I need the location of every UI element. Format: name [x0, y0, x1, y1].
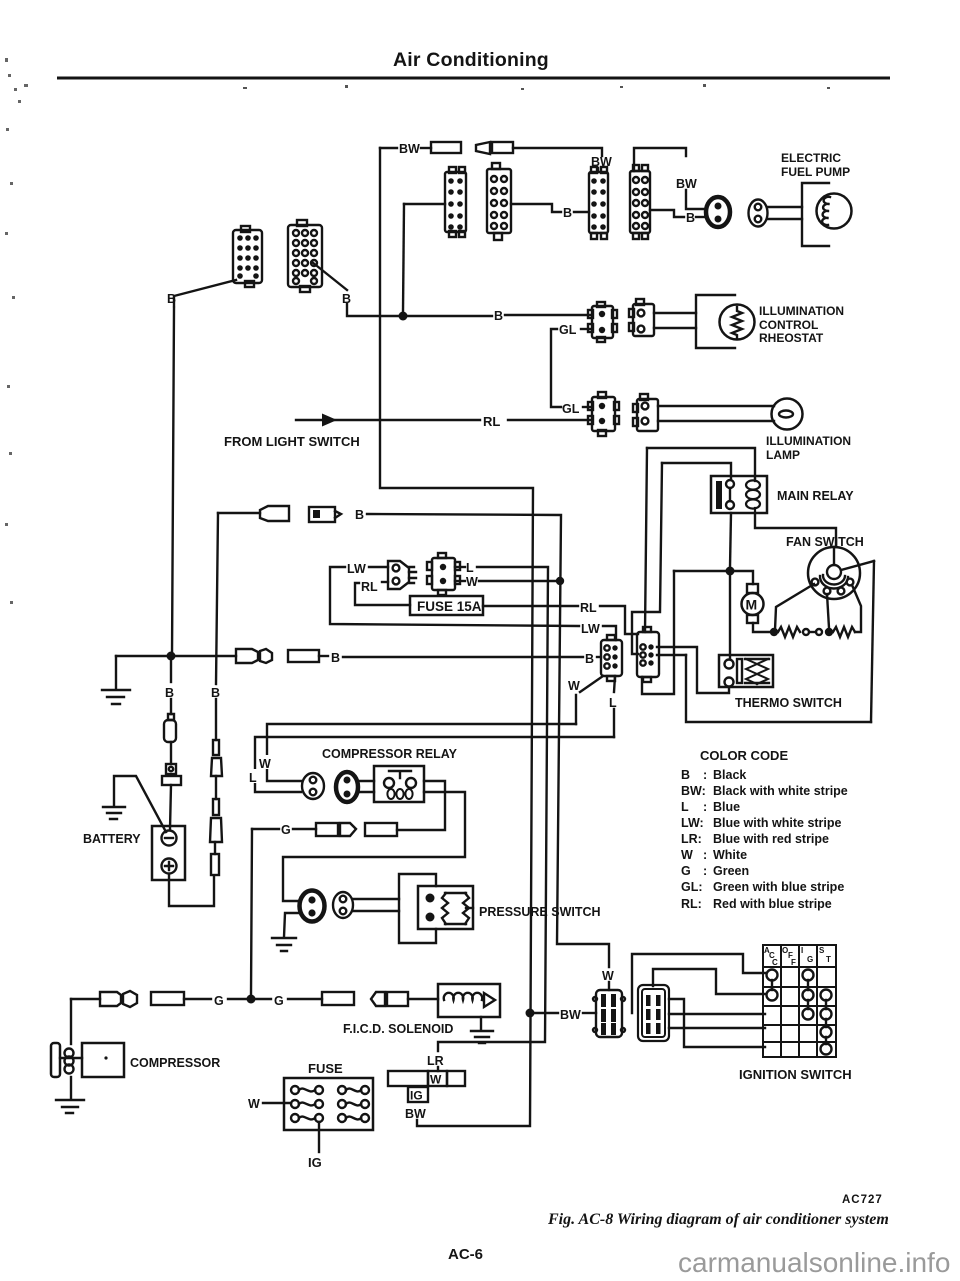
svg-text:FAN SWITCH: FAN SWITCH: [786, 535, 864, 549]
wire ground drop: [115, 656, 117, 689]
wire main BW vertical: top-left down, across, long drop to bottom loop: [380, 148, 533, 1126]
svg-text:LR: LR: [427, 1054, 444, 1068]
node left ground junction: [167, 652, 176, 661]
wire BW label into connector C: [597, 168, 599, 172]
svg-text:Black with white stripe: Black with white stripe: [713, 784, 848, 798]
wire connector I mid pin to loop: [657, 654, 686, 656]
wires dark oval to relay box: [358, 781, 374, 792]
oval connector (dark) fuel pump side: [706, 197, 730, 227]
wire relay upper right to inline connector: [397, 781, 445, 830]
wire RL label to connector J: [382, 581, 388, 583]
node W tap on rail: [556, 577, 564, 585]
wire B bullet row (y=514): [218, 512, 260, 514]
wire fan pin 1 diagonal to chain: [775, 584, 814, 630]
fan switch body: [808, 547, 860, 599]
resistor (fan speed) 2: [833, 627, 855, 637]
svg-text:W: W: [259, 757, 271, 771]
pressure switch bracket: [399, 874, 436, 943]
wire into connector A: [404, 203, 445, 205]
wire W feed: long run from under connector H west then down: [267, 724, 576, 781]
thermo switch bellows: [745, 659, 769, 684]
F.I.C.D. solenoid box: [438, 984, 500, 1017]
svg-text:IGNITION SWITCH: IGNITION SWITCH: [739, 1067, 852, 1082]
bullet plug (G row): [100, 992, 121, 1006]
blower motor M: [742, 584, 764, 623]
node G junction: [247, 995, 256, 1004]
svg-text::: :: [703, 800, 707, 814]
battery box: [152, 826, 185, 880]
node motor junction: [726, 567, 735, 576]
wire bridge 2 left drop with jog to connector I: [632, 463, 662, 654]
color code entry G: [681, 864, 749, 878]
wire connector I top pin to thermo bottom pin: [657, 647, 729, 693]
wire plug to corner above connector C: [513, 148, 602, 156]
svg-text::: :: [703, 864, 707, 878]
wire CN1 to B drop: [174, 280, 236, 306]
horizontal rule under title: [57, 77, 890, 80]
wire B run east to connector H: [343, 656, 583, 658]
wire compressor to ground: [70, 1077, 72, 1099]
wire BW tap to label: [534, 1012, 558, 1014]
wire G west corner: [252, 828, 279, 830]
svg-text:I: I: [801, 946, 803, 955]
arrow plug (G row): [123, 991, 137, 1007]
ground symbol (FICD): [471, 1031, 493, 1043]
wire RL label corner down to connector I: [600, 606, 638, 634]
svg-text:ILLUMINATION: ILLUMINATION: [766, 434, 851, 448]
wire L label east then down to LR cells: [438, 567, 548, 1051]
svg-text:B: B: [165, 686, 174, 700]
wire connector B to label B: [511, 204, 561, 212]
F.I.C.D. solenoid plunger: [484, 993, 495, 1007]
main relay box: [711, 476, 767, 513]
wire bullet to ring terminal: [170, 742, 172, 764]
wire ignition D (row 3): [669, 1013, 765, 1015]
wire fan switch wiper diagonal to right rail: [841, 561, 874, 570]
wire LR label to cells: [437, 1067, 439, 1071]
svg-text:B: B: [355, 508, 364, 522]
illumination lamp tube: [658, 406, 774, 421]
svg-text::: :: [703, 848, 707, 862]
wire L label drop from connector H: [614, 676, 615, 737]
color code entry GL: [681, 880, 844, 894]
oval connector (open) compressor relay: [302, 773, 324, 799]
svg-text:LW: LW: [581, 622, 600, 636]
main relay contact points: [726, 480, 734, 509]
illumination control rheostat (circle with resistor): [720, 305, 755, 340]
wire B bus label to connector E: [505, 314, 592, 316]
svg-text:T: T: [826, 955, 831, 964]
svg-text:FUSE: FUSE: [308, 1061, 343, 1076]
connector G (2-pin filled with tabs): [588, 392, 619, 436]
wire connector D up and over to BW label: [634, 148, 686, 171]
compressor box: [82, 1043, 124, 1077]
wire loop bottom (thermo circuit return): [686, 655, 871, 722]
fuse element r1c1: [291, 1086, 323, 1094]
svg-text:Fig. AC-8 Wiring diagram of a: Fig. AC-8 Wiring diagram of air conditio…: [547, 1211, 889, 1228]
connector D (10-pin open): [630, 165, 650, 239]
ignition header ACC: [764, 946, 778, 967]
svg-text:COLOR CODE: COLOR CODE: [700, 748, 788, 763]
bullet plug pair on BW wire: [476, 142, 490, 154]
node resistor chain left junction: [770, 628, 778, 636]
wire W label to fuse box: [263, 1102, 291, 1104]
wire junction left branch: [674, 570, 726, 572]
fuse element r3c2: [338, 1114, 369, 1122]
svg-text:PRESSURE SWITCH: PRESSURE SWITCH: [479, 905, 601, 919]
wire GL bracket vertical: [551, 329, 561, 407]
wire motor to resistor chain: [753, 623, 770, 632]
wire G label to plug: [293, 828, 316, 830]
svg-text:LAMP: LAMP: [766, 448, 800, 462]
node BW tap on main rail: [526, 1009, 535, 1018]
wire relay coil to fan switch: [755, 513, 836, 547]
wire left B vertical below junction: [170, 660, 172, 682]
svg-text:CONTROL: CONTROL: [759, 318, 818, 332]
svg-text:GL: GL: [559, 323, 577, 337]
wire B row east then down the W-rail: [367, 514, 609, 967]
wire junction to G label 2: [256, 998, 271, 1000]
oval connector (open) fuel pump side: [749, 200, 768, 227]
svg-text:carmanualsonline.info: carmanualsonline.info: [678, 1247, 950, 1278]
svg-text:L: L: [466, 561, 474, 575]
svg-text:AC-6: AC-6: [448, 1246, 483, 1263]
wire bridge 2 (to relay contact): [662, 463, 731, 478]
ignition switch grid: [763, 945, 836, 1057]
ignition contacts ACC column: [767, 970, 778, 1001]
svg-text:White: White: [713, 848, 747, 862]
wire GL label to connector E: [581, 328, 592, 330]
wire L feed: long run from under connector H west then down: [255, 737, 614, 792]
connector I (6-pin): [637, 627, 659, 682]
wire bridge 1 left drop to connector I: [645, 448, 647, 632]
svg-text:FUEL PUMP: FUEL PUMP: [781, 165, 850, 179]
wire ignition B (row 2): [653, 969, 765, 994]
wire BW stub at top left: [380, 147, 397, 149]
ground symbol (compressor): [56, 1100, 84, 1113]
wires oval to fuel pump: [768, 207, 802, 219]
svg-text:G: G: [281, 823, 291, 837]
svg-text:W: W: [681, 848, 693, 862]
svg-text:M: M: [746, 597, 758, 613]
blade connector pair 1 (x=218 column): [211, 740, 222, 776]
wire compressor feed corner: [71, 998, 100, 1000]
fuse element r2c1: [291, 1100, 323, 1108]
connector CN1 (12-pin, filled) top left: [233, 226, 262, 287]
svg-text:GL: GL: [562, 402, 580, 416]
wire resistor 2 up to fan pin 4: [852, 585, 861, 632]
wire under B label to blade connectors: [215, 699, 217, 740]
thermo switch bar: [737, 659, 742, 683]
fuse box: [284, 1078, 373, 1130]
main relay armature bar: [716, 481, 722, 509]
svg-text:Red with blue stripe: Red with blue stripe: [713, 897, 832, 911]
ignition header ST: [819, 946, 831, 964]
connector C (10-pin filled): [589, 167, 608, 239]
wire junction east to bullet row (y=656): [176, 655, 236, 657]
pressure switch bellows: [442, 893, 473, 924]
wire W label into BW connector: [608, 982, 610, 990]
svg-text:ILLUMINATION: ILLUMINATION: [759, 304, 844, 318]
svg-text:F: F: [791, 958, 796, 967]
svg-text:L: L: [681, 800, 689, 814]
wire ignition E (row 4): [669, 1027, 765, 1029]
bullet terminal (x=171 column): [164, 714, 176, 742]
wire to blade 3: [214, 842, 216, 854]
ignition contacts ST column: [821, 990, 832, 1055]
connector M (slotted 6-pin): [638, 985, 669, 1041]
blade connector pair 2 (x=218 column): [210, 799, 222, 842]
connector B (10-pin open): [487, 163, 511, 240]
svg-text:G: G: [214, 994, 224, 1008]
svg-text:B: B: [167, 292, 176, 306]
svg-text:B: B: [686, 211, 695, 225]
svg-text:S: S: [819, 946, 825, 955]
wire W label east to W-rail: [479, 580, 556, 582]
compressor relay box: [374, 766, 424, 802]
svg-text:G: G: [274, 994, 284, 1008]
inline connector rect (B row lower): [288, 650, 319, 662]
F.I.C.D. solenoid coil: [444, 993, 482, 1000]
svg-text:BW: BW: [399, 142, 420, 156]
wire relay contact down to motor junction: [730, 513, 731, 567]
svg-text:B: B: [563, 206, 572, 220]
wires connector F to rheostat bracket: [654, 313, 696, 328]
svg-text:BW:: BW:: [681, 784, 706, 798]
oval connector (dark) pressure switch: [300, 891, 325, 922]
wire FICD ground stub: [480, 1017, 482, 1030]
label L (compressor relay feed): [247, 769, 259, 785]
svg-text:Blue with red stripe: Blue with red stripe: [713, 832, 829, 846]
svg-text:BW: BW: [560, 1008, 581, 1022]
rheostat bracket: [696, 295, 735, 348]
color code entry LW: [681, 816, 842, 830]
wire junction to motor: [730, 571, 753, 584]
arrowhead on light switch feed: [322, 414, 337, 427]
svg-text:Black: Black: [713, 768, 746, 782]
connector J (2-pin wedge): [388, 561, 416, 589]
wire BW label to connector: [421, 147, 431, 149]
electric fuel pump motor circle with coil: [817, 194, 852, 229]
svg-text:Blue with white stripe: Blue with white stripe: [713, 816, 842, 830]
battery plus terminal: [162, 859, 177, 874]
wire B label to oval connector bottom pin: [696, 216, 706, 218]
connector K (2-pin filled with tabs): [427, 553, 460, 595]
compressor relay contacts: [384, 771, 416, 788]
svg-text:L: L: [609, 696, 617, 710]
svg-text:W: W: [248, 1097, 260, 1111]
wire rect to B label: [319, 655, 328, 657]
svg-text:RL: RL: [361, 580, 378, 594]
wire fuse box to IG: [318, 1122, 320, 1152]
wire K to W label: [455, 580, 465, 582]
wire LW label to connector J: [369, 566, 388, 568]
wire fan pin 2 down to chain junction: [827, 594, 829, 628]
svg-text:W: W: [430, 1073, 442, 1087]
svg-text:LW:: LW:: [681, 816, 704, 830]
wire right rail down to loop: [871, 561, 874, 722]
fan switch terminal pins: [812, 579, 854, 595]
wire LW bracket: left, down, long run east to connector H: [330, 567, 616, 640]
label W (compressor relay feed): [258, 755, 275, 771]
connector CN2 (18-pin, open) top left: [288, 220, 322, 292]
svg-text:G: G: [807, 955, 813, 964]
wire W label drop from connector H: [576, 676, 603, 724]
inline connector rect (G row left): [151, 992, 184, 1005]
wire B left vertical (x=218) down: [216, 513, 218, 684]
wire battery plus loop: [169, 874, 214, 906]
FUSE 15A box: [410, 596, 483, 615]
wire from-light-switch line with RL label: [296, 419, 592, 421]
svg-text:B: B: [494, 309, 503, 323]
thermo switch pins: [725, 660, 734, 687]
svg-text:THERMO SWITCH: THERMO SWITCH: [735, 696, 842, 710]
socket connector (B row upper): [309, 507, 341, 522]
wire bridge 1 (to relay coil): [647, 448, 755, 478]
blade connector 3 (x=218 column): [211, 854, 219, 875]
color code entry B: [681, 768, 746, 782]
connector L (striped 6-pin): [593, 990, 625, 1037]
wire K to L label: [455, 566, 465, 568]
connector A (10-pin filled): [445, 167, 466, 237]
wire B label into connector H: [597, 656, 601, 658]
wire relay lower right big loop to pressure branch: [283, 792, 465, 901]
ignition header IG: [801, 946, 813, 964]
svg-text:GL:: GL:: [681, 880, 703, 894]
wire BW label down to oval connector top pin: [686, 190, 706, 209]
scan specks under rule: [243, 84, 830, 90]
ground symbol (pressure branch): [272, 938, 296, 951]
ring terminal (x=171 column): [162, 764, 181, 785]
chain contacts (open circles): [803, 629, 822, 635]
oval connector (dark) compressor relay: [336, 772, 358, 802]
bullet plug (B row lower): [236, 649, 258, 663]
svg-text:C: C: [772, 958, 778, 967]
wire to G label: [184, 998, 211, 1000]
svg-text:RL:: RL:: [681, 897, 702, 911]
arrow plug pair (FICD side): [371, 992, 408, 1006]
node junction on B bus: [399, 312, 408, 321]
illumination lamp bulb: [772, 399, 803, 430]
ignition contacts IG column: [803, 970, 814, 1020]
wire B label to bullet terminal: [170, 699, 172, 714]
wire pressure oval lower pin to ground: [284, 913, 299, 937]
svg-text::: :: [703, 768, 707, 782]
svg-text:LR:: LR:: [681, 832, 702, 846]
wire GL label to connector G: [583, 406, 592, 408]
bullet plug (B row upper): [260, 506, 289, 521]
color code entry W: [681, 848, 747, 862]
wire junction down to thermo switch top pin: [729, 575, 731, 659]
svg-text:Blue: Blue: [713, 800, 740, 814]
svg-text:RL: RL: [580, 601, 597, 615]
arrow plug (B row lower): [260, 649, 272, 663]
battery minus terminal: [162, 831, 177, 846]
svg-text:BW: BW: [405, 1107, 426, 1121]
wire ring terminal to battery: [170, 785, 171, 829]
connector E (2-pin filled with tabs): [588, 302, 617, 342]
wire battery ground branch: [114, 776, 166, 832]
wire left branch loop back to connector I bottom: [642, 571, 674, 694]
wire vertical from connector A down to junction: [403, 204, 404, 312]
wire ignition C (bottom row): [669, 999, 765, 1047]
svg-text:FROM LIGHT SWITCH: FROM LIGHT SWITCH: [224, 434, 360, 449]
wires oval to pressure switch bracket: [353, 899, 399, 911]
wire connector D to B label: [650, 210, 684, 217]
svg-text:RL: RL: [483, 414, 500, 429]
svg-text:F.I.C.D. SOLENOID: F.I.C.D. SOLENOID: [343, 1022, 453, 1036]
main relay coil: [746, 479, 760, 513]
oval connector (open) pressure switch: [333, 892, 353, 918]
pressure switch contacts: [426, 894, 435, 922]
wire CN2 to B drop: [312, 262, 347, 290]
thermo switch box: [719, 655, 773, 687]
wire G rail down to bottom row: [251, 829, 252, 995]
pressure switch box: [418, 886, 473, 929]
ignition header OFF: [782, 946, 796, 967]
color code entry L: [681, 800, 740, 814]
wire B drop to junction: [347, 304, 398, 316]
connector G mate (2-pin open): [633, 394, 658, 431]
svg-text:G: G: [681, 864, 691, 878]
svg-text:AC727: AC727: [842, 1194, 883, 1206]
fuse element r3c1: [291, 1114, 323, 1122]
wire RL bracket down to fuse box: [355, 583, 410, 605]
svg-text:L: L: [249, 771, 257, 785]
svg-text:W: W: [568, 679, 580, 693]
svg-text:BATTERY: BATTERY: [83, 832, 141, 846]
plug pair (G branch): [316, 823, 356, 836]
svg-text:RHEOSTAT: RHEOSTAT: [759, 331, 824, 345]
wire BW label to connector L: [583, 1012, 596, 1014]
svg-text:W: W: [466, 575, 478, 589]
compressor relay coil: [387, 789, 412, 799]
wire G label to junction: [228, 998, 246, 1000]
fuse element r2c2: [338, 1100, 369, 1108]
svg-text:Green: Green: [713, 864, 749, 878]
connector F (2-pin open): [629, 299, 654, 336]
electric fuel pump bracket: [802, 183, 829, 246]
color code entry LR: [681, 832, 829, 846]
svg-text:B: B: [681, 768, 690, 782]
svg-text:LW: LW: [347, 562, 366, 576]
wire G label 2 east: [288, 998, 322, 1000]
wire between blade pairs: [215, 776, 217, 799]
ground symbol (battery): [103, 807, 125, 819]
color code entry BW: [681, 784, 848, 798]
svg-text:B: B: [585, 652, 594, 666]
wire G row down to compressor: [70, 999, 72, 1044]
IG cell box: [408, 1087, 428, 1102]
svg-text:IG: IG: [410, 1089, 423, 1103]
wire label B to connector C: [574, 211, 589, 213]
compressor clutch coil: [60, 1049, 82, 1074]
compressor clutch plate: [51, 1043, 60, 1077]
ground symbol (left upper): [102, 690, 130, 704]
fuse element r1c2: [338, 1086, 369, 1094]
connector H (6-pin): [601, 635, 622, 681]
inline connector rect (G branch): [365, 823, 397, 836]
color code entry RL: [681, 897, 832, 911]
wire B bus junction to label: [408, 315, 492, 317]
inline connector (rectangle) on BW wire: [431, 142, 461, 153]
ignition feed cells row: [388, 1071, 465, 1086]
wire ground branch to junction: [116, 655, 167, 657]
svg-text:MAIN RELAY: MAIN RELAY: [777, 489, 854, 503]
svg-text:IG: IG: [308, 1155, 322, 1170]
svg-text:COMPRESSOR RELAY: COMPRESSOR RELAY: [322, 747, 458, 761]
node resistor chain right junction: [825, 628, 833, 636]
